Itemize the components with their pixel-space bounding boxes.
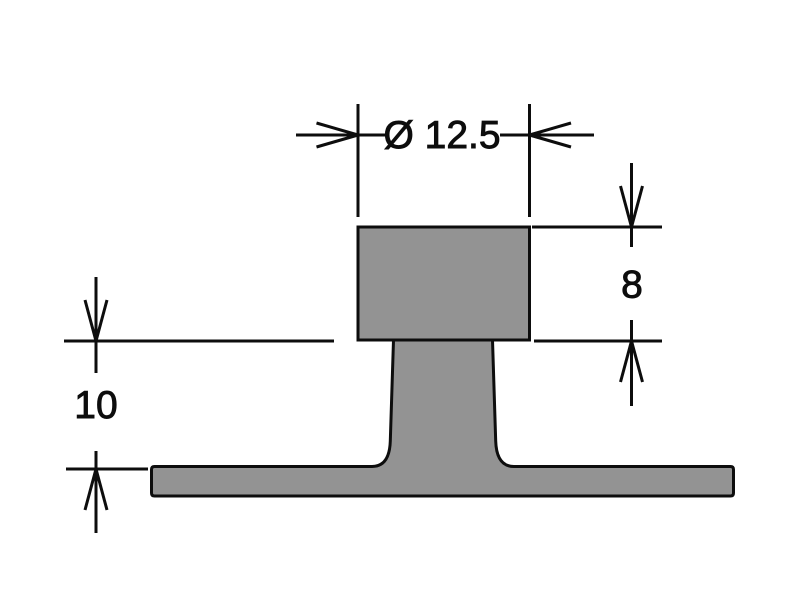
dimension Ø 12.5 : right dimension line with inward arrow [500, 123, 594, 147]
dimension 10 : lower dimension line with upward arrow [85, 451, 107, 533]
dimension 8 : bottom extension tick [534, 340, 662, 343]
dimension value label "Ø 12.5" [383, 114, 500, 157]
dimension Ø 12.5 : left extension line [357, 104, 360, 217]
dimension 10 : upper dimension line with downward arrow [85, 277, 107, 373]
svg-text:Ø 12.5: Ø 12.5 [383, 114, 500, 157]
part head: rectangular cap on top of stem [358, 227, 530, 340]
dimension value label "8" [621, 264, 643, 307]
dimension Ø 12.5 : right extension line [528, 104, 531, 217]
dimension 10 : top reference line [64, 340, 334, 343]
dimension 10 : bottom reference tick [66, 468, 148, 471]
dimension Ø 12.5 : left dimension line with inward arrow [296, 123, 387, 147]
part body: flange base with tapered stem (gray cross-section) [152, 340, 734, 496]
dimension value label "10" [74, 384, 117, 427]
dimension 8 : upper dimension line with downward arrow [621, 163, 643, 247]
dimension 8 : lower dimension line with upward arrow [621, 320, 643, 406]
svg-text:8: 8 [621, 264, 643, 307]
dimension 8 : top extension tick [532, 226, 662, 229]
svg-text:10: 10 [74, 384, 117, 427]
